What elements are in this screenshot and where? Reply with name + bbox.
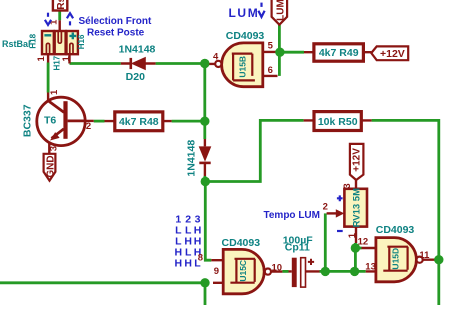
gate U15C CD4093 xyxy=(198,237,283,294)
svg-text:Sélection Front: Sélection Front xyxy=(79,16,152,27)
node pin12 junction xyxy=(351,243,360,252)
resistor R48 xyxy=(105,112,172,131)
capacitor Cp11 100uF xyxy=(283,234,320,287)
note arrow down left xyxy=(45,13,51,25)
svg-text:+12V: +12V xyxy=(380,48,405,60)
svg-text:H: H xyxy=(184,258,192,270)
power flag +12V (above RV13) xyxy=(350,144,364,180)
svg-text:1: 1 xyxy=(36,55,47,61)
diode 1N4148 vertical xyxy=(185,139,211,177)
svg-text:H16: H16 xyxy=(77,34,86,49)
svg-text:U15D: U15D xyxy=(391,248,401,270)
wire node to pin 12 xyxy=(355,247,361,250)
svg-text:3: 3 xyxy=(342,183,353,188)
svg-text:U15C: U15C xyxy=(238,260,248,282)
node pin11 junction xyxy=(434,255,443,264)
svg-text:Tempo LUM: Tempo LUM xyxy=(264,210,320,221)
svg-text:4k7 R48: 4k7 R48 xyxy=(119,116,159,128)
node D junction xyxy=(200,278,209,287)
resistor Rst (cut off at top) xyxy=(53,0,67,11)
wire node C right up to R50 xyxy=(205,120,303,181)
wire base row R48 xyxy=(94,120,105,123)
svg-text:BC337: BC337 xyxy=(22,104,34,137)
svg-text:H17: H17 xyxy=(52,55,61,70)
resistor R50 xyxy=(304,112,372,131)
node A junction xyxy=(200,59,209,68)
svg-text:CD4093: CD4093 xyxy=(222,237,261,249)
wire cap to pin13 bottom row xyxy=(320,270,366,273)
svg-text:1: 1 xyxy=(61,55,72,61)
wire H18 net vertical to T6 collector xyxy=(47,63,50,93)
svg-text:1: 1 xyxy=(347,232,358,238)
resistor R49 xyxy=(304,44,371,61)
svg-text:Reset Poste: Reset Poste xyxy=(87,27,145,38)
wire diode bottom to node C xyxy=(203,176,206,182)
svg-text:9: 9 xyxy=(214,266,219,277)
wire pin5 node to R49 xyxy=(280,51,304,54)
svg-text:4: 4 xyxy=(213,51,219,62)
wire node D down to bottom edge xyxy=(204,283,207,305)
svg-text:RV13 5M: RV13 5M xyxy=(351,188,362,228)
trimmer RV13 5M xyxy=(323,180,367,243)
transistor T6 BC337 xyxy=(22,89,94,154)
svg-text:Rst: Rst xyxy=(56,0,67,10)
wire node C down to pin 8 xyxy=(205,182,211,261)
svg-text:2: 2 xyxy=(86,121,91,132)
svg-text:D20: D20 xyxy=(126,71,145,83)
gate U15B CD4093 (mirrored) xyxy=(205,30,278,87)
wire R50 right to right bus corner xyxy=(372,120,439,305)
wire RV13 pin2 corner down xyxy=(324,213,327,271)
wire RstH17 stub at top xyxy=(58,11,61,21)
connector RstBal H16 xyxy=(61,31,86,64)
svg-text:10: 10 xyxy=(272,263,283,274)
svg-text:T6: T6 xyxy=(44,115,56,127)
connector RstBal H18 xyxy=(28,31,53,63)
wire D20 to node A xyxy=(156,62,205,65)
wire R48 to node B xyxy=(172,120,205,123)
node cap junction xyxy=(321,267,330,276)
node B junction xyxy=(200,117,209,126)
wire RV13 pin1 to node xyxy=(354,243,357,271)
diode D20 xyxy=(119,44,156,83)
svg-text:1N4148: 1N4148 xyxy=(119,44,156,56)
svg-text:U15B: U15B xyxy=(238,56,248,78)
note arrow up right xyxy=(67,13,73,25)
svg-text:13: 13 xyxy=(365,261,376,272)
gate U15D CD4093 xyxy=(358,224,436,282)
svg-text:CD4093: CD4093 xyxy=(376,224,415,236)
svg-text:GND: GND xyxy=(45,155,56,177)
power flag +12V (right of R49) xyxy=(371,46,408,60)
svg-text:8: 8 xyxy=(198,253,203,264)
connector RstBal H17 xyxy=(48,19,65,71)
svg-text:LUM: LUM xyxy=(229,6,260,20)
svg-text:RstBal: RstBal xyxy=(2,39,31,49)
node pin5 junction xyxy=(275,48,284,57)
svg-text:11: 11 xyxy=(419,250,430,261)
svg-text:H: H xyxy=(175,258,183,270)
svg-text:1: 1 xyxy=(49,89,60,95)
svg-text:LUM: LUM xyxy=(275,0,286,21)
svg-text:Cp11: Cp11 xyxy=(285,242,310,254)
svg-text:6: 6 xyxy=(268,65,273,76)
svg-text:2: 2 xyxy=(323,202,328,213)
wire pin11 to right bus xyxy=(436,258,439,261)
svg-text:CD4093: CD4093 xyxy=(226,30,265,42)
svg-text:10k R50: 10k R50 xyxy=(318,116,358,128)
svg-text:+12V: +12V xyxy=(352,148,363,172)
svg-text:4k7 R49: 4k7 R49 xyxy=(319,47,359,59)
svg-text:1N4148: 1N4148 xyxy=(185,140,197,177)
node pin13 junction xyxy=(350,267,359,276)
node C junction xyxy=(201,177,210,186)
ground GND flag xyxy=(44,154,57,181)
wire LUM label down across pins 5 and 6 xyxy=(278,25,281,76)
wire left rail to node D pin 9 xyxy=(0,281,205,284)
note truth table xyxy=(175,213,202,269)
wire H16 net to D20 xyxy=(70,62,121,65)
svg-text:5: 5 xyxy=(268,40,274,51)
hierarchical label LUM xyxy=(272,0,288,25)
svg-text:3: 3 xyxy=(48,146,59,151)
wire node A down to node B xyxy=(203,64,206,140)
wire pin10 to cap xyxy=(282,270,288,273)
